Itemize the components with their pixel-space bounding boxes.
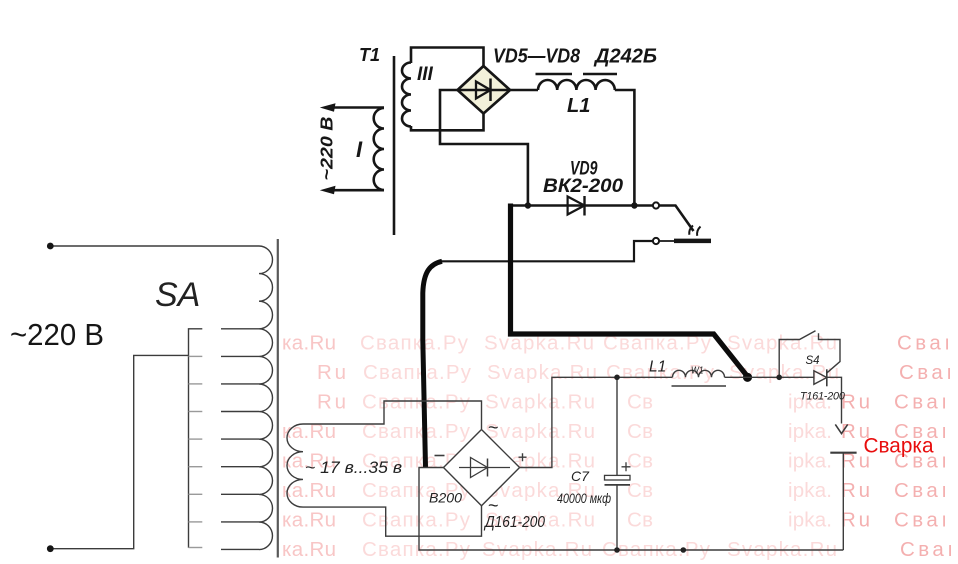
diode VD9 <box>568 196 585 216</box>
svg-text:Ru: Ru <box>841 508 870 531</box>
transformer T1 core <box>393 56 396 235</box>
contact arc <box>689 226 693 235</box>
switch SA bus <box>189 329 203 548</box>
node rail <box>681 547 687 553</box>
inductor core <box>672 385 727 387</box>
rectifier B200 bridge <box>444 430 520 506</box>
svg-text:~ 17 в...35 в: ~ 17 в...35 в <box>305 459 402 477</box>
svg-text:B200: B200 <box>429 491 463 506</box>
switch fixed blade thick <box>674 239 711 244</box>
wire bridge to L1 <box>510 89 538 92</box>
svg-text:Св: Св <box>627 390 653 413</box>
svg-text:40000 мкф: 40000 мкф <box>557 490 611 506</box>
svg-text:ВК2-200: ВК2-200 <box>543 176 623 197</box>
arrow mains top <box>320 103 336 112</box>
switch contact top <box>653 202 659 208</box>
svg-text:Св: Св <box>627 479 653 502</box>
svg-text:Свапка.Ру: Свапка.Ру <box>362 390 471 413</box>
svg-text:Svapka.Ru: Svapka.Ru <box>485 390 595 413</box>
switch fixed blade <box>660 240 677 242</box>
svg-text:Св: Св <box>627 449 653 472</box>
svg-text:ipka.: ipka. <box>788 420 832 443</box>
wire B200 plus to filter node <box>520 377 673 467</box>
input terminal top <box>47 243 54 250</box>
svg-text:Ru: Ru <box>317 361 346 384</box>
svg-text:L1: L1 <box>649 359 666 376</box>
cable end node <box>743 373 752 382</box>
bypass switch right side <box>819 333 841 373</box>
wire mains bottom <box>50 355 188 548</box>
electrode wire <box>842 453 844 550</box>
svg-text:Д242Б: Д242Б <box>593 46 657 68</box>
svg-text:Ru: Ru <box>317 390 346 413</box>
svg-text:~220 В: ~220 В <box>10 317 104 352</box>
wire winding I top lead <box>332 106 384 109</box>
svg-text:C7: C7 <box>571 468 590 484</box>
svg-text:Ru: Ru <box>841 479 870 502</box>
wire secondary bottom to bridge <box>303 506 482 536</box>
secondary winding 17-35v <box>287 424 303 507</box>
svg-text:Д161-200: Д161-200 <box>483 514 545 531</box>
wire VD9 line <box>511 204 654 207</box>
wire secondary top to bridge <box>303 401 482 429</box>
winding taps <box>221 329 259 550</box>
transformer core <box>277 239 279 558</box>
wire bottom contact left <box>441 241 653 261</box>
svg-text:VD5—VD8: VD5—VD8 <box>493 46 581 68</box>
wire thyristor to electrode <box>827 377 842 423</box>
svg-text:Svapka.Ru: Svapka.Ru <box>485 420 595 443</box>
watermark <box>282 331 953 561</box>
wire bridge negative down to VD9 line <box>440 90 528 206</box>
switch contact bottom <box>653 238 659 244</box>
transformer T1 winding I <box>374 108 384 190</box>
wire B200 minus to bottom rail <box>419 468 843 551</box>
inductor L1 choke <box>538 80 615 90</box>
svg-text:III: III <box>417 64 434 85</box>
svg-text:ipka.: ipka. <box>788 479 832 502</box>
junction node <box>631 202 637 208</box>
wire L1 to VD9 node <box>615 90 635 206</box>
plus mark C7 <box>622 462 631 471</box>
svg-text:S4: S4 <box>806 355 820 367</box>
svg-text:L1: L1 <box>567 95 590 117</box>
svg-text:Свапка.Ру: Свапка.Ру <box>360 331 469 354</box>
svg-text:Св: Св <box>627 420 653 443</box>
svg-text:~: ~ <box>488 418 499 438</box>
contact arc <box>697 227 700 236</box>
core bar of L1 <box>583 73 617 75</box>
svg-text:Свапка.Ру: Свапка.Ру <box>362 508 471 531</box>
junction node <box>525 202 531 208</box>
svg-text:Ru: Ru <box>841 390 870 413</box>
svg-text:I: I <box>356 137 363 162</box>
arrow to electrode <box>835 424 847 433</box>
svg-text:SA: SA <box>155 276 200 314</box>
filter node <box>614 375 620 381</box>
input terminal bottom <box>47 545 54 552</box>
electrode plate <box>830 452 856 454</box>
autotransformer winding <box>259 246 273 550</box>
svg-text:ipka.: ipka. <box>788 449 832 472</box>
bridge rectifier VD5-VD8 <box>458 66 511 114</box>
thyristor S4 <box>814 369 827 386</box>
svg-text:Св: Св <box>627 508 653 531</box>
plus mark <box>519 453 527 461</box>
svg-text:ка.Ru: ка.Ru <box>282 508 336 531</box>
svg-text:ка.Ru: ка.Ru <box>282 479 336 502</box>
wire winding III to bridge top <box>411 48 484 67</box>
svg-text:T1: T1 <box>359 45 380 65</box>
capacitor C7 top plate <box>605 475 631 480</box>
minus mark <box>435 455 445 457</box>
capacitor C7 top leg <box>616 377 618 475</box>
svg-text:Svapka.Ru: Svapka.Ru <box>487 361 597 384</box>
svg-text:Свапка.Ру: Свапка.Ру <box>363 361 472 384</box>
svg-text:~220 В: ~220 В <box>317 117 337 181</box>
svg-text:Сварка: Сварка <box>864 434 934 458</box>
svg-text:ipka.: ipka. <box>788 508 832 531</box>
node rail C7 <box>614 547 620 553</box>
wire winding III to bridge bottom <box>411 114 484 131</box>
capacitor C7 bottom leg <box>616 485 618 550</box>
transformer T1 winding III <box>402 63 411 127</box>
node S4 branch <box>776 375 782 381</box>
inductor L1 output <box>673 370 725 377</box>
bypass switch S4 wire <box>779 331 815 378</box>
svg-text:Svapka.Ru: Svapka.Ru <box>727 331 837 354</box>
SA selector contacts <box>189 356 203 547</box>
switch blade top <box>660 206 694 232</box>
wire mains top <box>50 245 259 247</box>
welding cable thick right <box>511 204 748 377</box>
capacitor C7 bottom plate <box>605 484 631 486</box>
arrow mains bottom <box>320 186 336 194</box>
svg-text:T161-200: T161-200 <box>800 391 845 403</box>
core bar of L1 <box>536 73 573 75</box>
svg-text:~: ~ <box>488 496 499 516</box>
wire choke to thyristor <box>725 376 814 378</box>
wire winding I bottom lead <box>332 189 384 192</box>
svg-text:ка.Ru: ка.Ru <box>282 331 336 354</box>
welding cable thick left <box>423 261 442 467</box>
svg-text:W1: W1 <box>691 365 704 377</box>
svg-text:ка.Ru: ка.Ru <box>282 538 336 561</box>
